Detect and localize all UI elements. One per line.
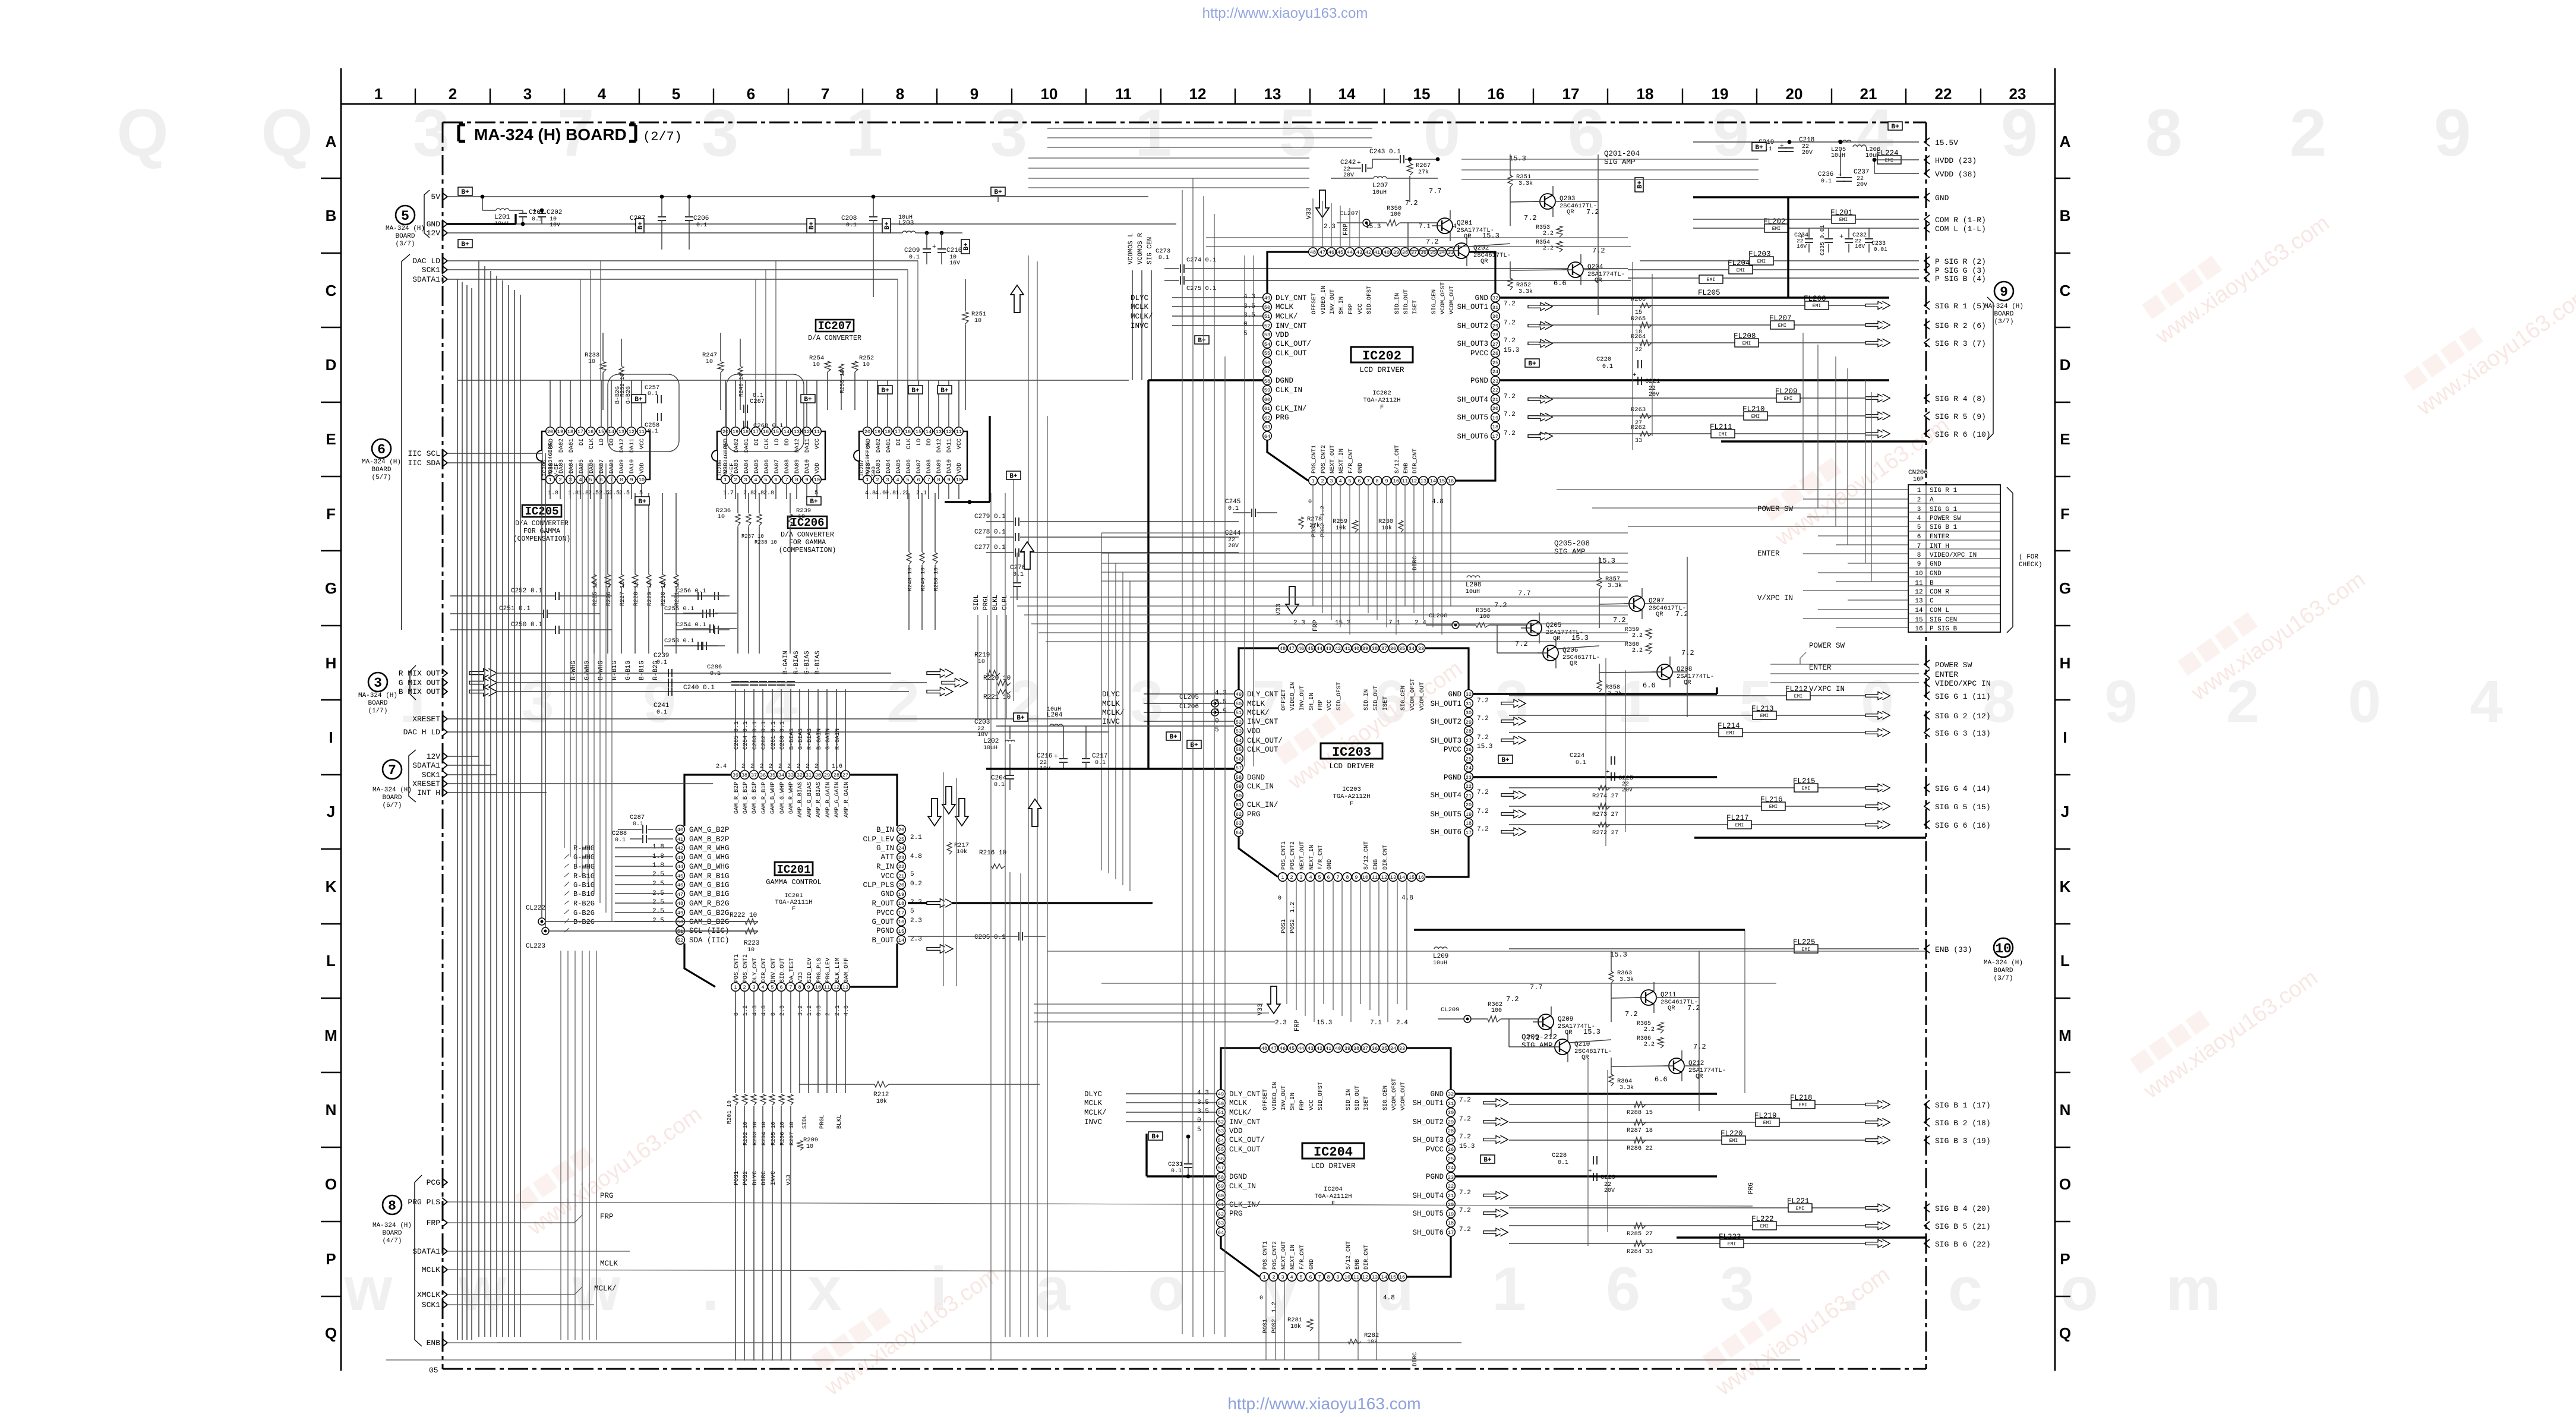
svg-text:DA02: DA02: [558, 438, 565, 453]
svg-text:GAM_G_WHG: GAM_G_WHG: [689, 853, 730, 861]
svg-text:10uH: 10uH: [1466, 589, 1480, 595]
svg-text:ISET: ISET: [1412, 300, 1419, 314]
node POWER SW (right connector): [1924, 660, 1930, 668]
pin 15 of IC207: [914, 427, 923, 436]
svg-text:14: 14: [926, 429, 932, 435]
svg-text:1.8: 1.8: [652, 862, 664, 869]
svg-text:14: 14: [1338, 85, 1356, 103]
connector group 6 circled number: [372, 439, 391, 458]
svg-text:9: 9: [1917, 561, 1921, 568]
VDD rail to IC203: [996, 725, 1234, 727]
svg-text:MA-324 (H): MA-324 (H): [362, 459, 401, 466]
svg-text:DA10: DA10: [946, 459, 953, 474]
svg-text:G-B2G: G-B2G: [573, 909, 595, 917]
svg-text:62: 62: [1236, 812, 1242, 818]
svg-text:FRP: FRP: [1343, 223, 1350, 235]
svg-text:B+: B+: [461, 189, 469, 196]
svg-text:CLP_LEV: CLP_LEV: [863, 835, 894, 844]
svg-text:4.8: 4.8: [761, 1005, 768, 1016]
svg-text:PVCC: PVCC: [1444, 746, 1461, 754]
svg-text:14: 14: [608, 429, 614, 435]
svg-text:FL205: FL205: [1698, 289, 1721, 297]
rounded bus outline under IC205: [608, 374, 679, 452]
svg-text:30: 30: [815, 772, 821, 778]
svg-text:C237: C237: [1854, 169, 1869, 176]
svg-text:R358: R358: [1605, 684, 1620, 691]
svg-text:12V: 12V: [427, 229, 441, 238]
svg-text:IC204: IC204: [1324, 1186, 1343, 1193]
svg-text:FL217: FL217: [1726, 814, 1749, 822]
svg-text:PVCC: PVCC: [1426, 1145, 1444, 1154]
pin 18 of IC206: [741, 427, 750, 436]
svg-text:46: 46: [1298, 646, 1304, 652]
svg-text:2.5: 2.5: [652, 871, 664, 878]
svg-text:EMI: EMI: [1763, 1121, 1772, 1126]
svg-text:10: 10: [974, 318, 981, 324]
svg-text:39: 39: [1393, 250, 1399, 255]
svg-text:2.3: 2.3: [1293, 620, 1305, 627]
IC201 right pin column 26-14: [897, 825, 906, 834]
svg-text:27: 27: [1492, 342, 1498, 348]
svg-text:6: 6: [1309, 1274, 1312, 1280]
svg-text:C218: C218: [1799, 137, 1814, 144]
svg-text:2.2: 2.2: [1632, 633, 1643, 639]
svg-text:C220: C220: [1596, 356, 1611, 363]
svg-text:EMI: EMI: [1784, 396, 1792, 402]
svg-text:MCLK/: MCLK/: [594, 1285, 617, 1293]
svg-text:Q201: Q201: [1457, 220, 1473, 227]
svg-text:GAM_G_B2G: GAM_G_B2G: [689, 909, 730, 917]
svg-text:FRP: FRP: [427, 1219, 441, 1227]
svg-text:DLY_CNT: DLY_CNT: [1247, 690, 1278, 699]
svg-text:DA11: DA11: [946, 438, 953, 453]
connector group: DAC LD / SCK1 / SDATA1: [402, 254, 410, 630]
svg-text:CL207: CL207: [1340, 210, 1359, 217]
svg-text:5: 5: [906, 477, 909, 483]
pin 6 of IC207: [914, 475, 923, 484]
svg-text:VIDEO_IN: VIDEO_IN: [1290, 682, 1296, 711]
svg-text:FL224: FL224: [1876, 149, 1899, 157]
svg-text:C242: C242: [1340, 159, 1356, 166]
svg-text:100: 100: [1390, 212, 1401, 218]
resistor R254 R253 R252 above IC207: [825, 361, 831, 372]
svg-text:QR: QR: [1570, 660, 1577, 667]
svg-text:C: C: [326, 282, 337, 299]
svg-text:C204: C204: [991, 775, 1007, 782]
svg-text:17: 17: [895, 429, 901, 435]
wire bus vertical left group (SDATA/SCK/12V risers): [478, 261, 479, 1337]
pin 10 of IC206: [813, 475, 822, 484]
svg-text:R MIX OUT: R MIX OUT: [399, 669, 440, 678]
svg-text:16: 16: [905, 429, 911, 435]
svg-text:V33: V33: [1257, 1003, 1264, 1015]
IC IC202 top pin row 48-33: [1309, 248, 1318, 257]
svg-text:MA-324 (H): MA-324 (H): [386, 225, 425, 232]
svg-text:DA12: DA12: [619, 438, 626, 453]
svg-text:R254: R254: [809, 355, 824, 362]
svg-text:TGA-A2112H: TGA-A2112H: [1314, 1193, 1352, 1200]
svg-text:u: u: [1376, 1255, 1414, 1324]
svg-text:49: 49: [677, 910, 683, 916]
svg-text:15: 15: [1439, 478, 1445, 484]
svg-text:2: 2: [778, 763, 782, 770]
svg-text:DLYC: DLYC: [1102, 690, 1120, 699]
wire bundle center-right vertical risers: [1182, 190, 1183, 1334]
pin 16 of IC207: [904, 427, 913, 436]
svg-text:5: 5: [589, 477, 592, 483]
svg-text:3.3k: 3.3k: [1608, 582, 1622, 589]
svg-text:B_OUT: B_OUT: [872, 936, 894, 945]
resistor R352 3.3k: [1508, 278, 1513, 290]
svg-text:17: 17: [753, 429, 759, 435]
pin 17 of IC207: [894, 427, 902, 436]
down arrow above IC204: [1267, 986, 1280, 1014]
svg-text:45: 45: [1289, 1046, 1295, 1052]
pin 10 of IC205: [637, 475, 646, 484]
svg-text:GND: GND: [1309, 1259, 1315, 1270]
svg-text:QR: QR: [1668, 1005, 1675, 1012]
svg-text:10V: 10V: [550, 222, 560, 229]
svg-text:DAC LD: DAC LD: [412, 257, 440, 266]
svg-text:NEXT_OUT: NEXT_OUT: [1281, 1241, 1287, 1270]
svg-text:(3/7): (3/7): [395, 241, 415, 248]
node SIG G 4 (14) (right connector): [1924, 784, 1930, 792]
svg-text:B+: B+: [1198, 337, 1206, 345]
svg-text:3: 3: [1130, 668, 1163, 735]
svg-text:CL222: CL222: [526, 905, 545, 912]
svg-text:MCLK: MCLK: [1102, 700, 1120, 708]
svg-text:SH_OUT1: SH_OUT1: [1430, 700, 1461, 708]
svg-text:15: 15: [598, 429, 604, 435]
svg-text:DD: DD: [609, 438, 615, 446]
svg-text:MCLK: MCLK: [422, 1265, 440, 1274]
svg-text:MCLK/: MCLK/: [1102, 709, 1125, 717]
svg-text:48: 48: [1261, 1046, 1267, 1052]
svg-text:10: 10: [718, 514, 725, 520]
svg-text:5: 5: [910, 871, 914, 878]
svg-text:42: 42: [1335, 646, 1341, 652]
svg-text:VDD: VDD: [639, 463, 646, 474]
svg-text:7.7: 7.7: [1429, 187, 1442, 195]
transistor Q209: [1538, 1014, 1554, 1030]
svg-text:10: 10: [956, 477, 962, 483]
svg-text:L: L: [326, 952, 336, 970]
svg-text:FL201: FL201: [1830, 209, 1853, 217]
svg-text:32: 32: [797, 772, 803, 778]
svg-text:C205 0.1: C205 0.1: [974, 934, 1006, 941]
svg-text:63: 63: [1264, 424, 1270, 430]
node SIG R 5 (9) (right connector): [1924, 412, 1930, 420]
svg-text:GAM_R_WHG: GAM_R_WHG: [689, 844, 730, 853]
pin 12 of IC206: [803, 427, 812, 436]
svg-text:0: 0: [1197, 1117, 1201, 1124]
IC IC206 D/A converter package: [717, 431, 825, 479]
svg-text:FL209: FL209: [1775, 387, 1798, 396]
svg-text:4.3: 4.3: [1197, 1090, 1209, 1097]
svg-text:TGA-A2112H: TGA-A2112H: [1363, 397, 1400, 404]
svg-text:SIG R 6 (10): SIG R 6 (10): [1935, 430, 1991, 439]
svg-text:9: 9: [2000, 285, 2008, 300]
svg-text:2.2: 2.2: [1543, 231, 1554, 237]
svg-text:ENB: ENB: [427, 1339, 441, 1347]
pin 8 of IC206: [792, 475, 801, 484]
svg-text:AMP_B_GAIN: AMP_B_GAIN: [825, 782, 832, 818]
svg-text:SH_OUT3: SH_OUT3: [1457, 340, 1488, 348]
IC IC203 GND thick wire: [1473, 693, 1717, 695]
svg-text:60: 60: [1264, 397, 1270, 403]
arrow IC202 SH_OUT1: [1528, 302, 1552, 311]
svg-text:12: 12: [804, 429, 810, 435]
svg-text:B+: B+: [809, 222, 816, 230]
svg-text:44: 44: [1347, 250, 1353, 255]
svg-text:B-B2G: B-B2G: [573, 918, 595, 926]
svg-text:w: w: [458, 1255, 507, 1324]
svg-text:POS_CNT1: POS_CNT1: [1262, 1241, 1269, 1270]
svg-text:2.5: 2.5: [652, 899, 664, 906]
svg-text:K: K: [326, 878, 337, 895]
svg-text:56: 56: [1218, 1156, 1224, 1162]
svg-text:L209: L209: [1433, 953, 1448, 960]
svg-text:V/XPC IN: V/XPC IN: [1809, 685, 1845, 693]
svg-text:PRG PLS: PRG PLS: [408, 1198, 440, 1207]
svg-text:22: 22: [1935, 85, 1952, 103]
wire SIG B 1 (17): [1509, 1104, 1791, 1105]
svg-text:OFFSET: OFFSET: [1262, 1089, 1269, 1110]
svg-text:10: 10: [1915, 570, 1922, 577]
svg-text:+: +: [1780, 143, 1784, 150]
resistor R357 3.3k: [1597, 577, 1602, 589]
svg-text:20V: 20V: [1604, 1188, 1615, 1194]
svg-text:2: 2: [886, 668, 920, 735]
svg-text:DA01: DA01: [744, 438, 750, 453]
svg-text:1: 1: [1311, 478, 1314, 484]
svg-text:B+: B+: [638, 498, 646, 506]
svg-text:14: 14: [784, 429, 790, 435]
svg-text:36: 36: [1372, 1046, 1378, 1052]
svg-text:INVC: INVC: [1084, 1118, 1102, 1126]
svg-text:0.01: 0.01: [1874, 246, 1887, 253]
transistor Q211: [1641, 990, 1656, 1005]
wire vertical at dense col 10: [1244, 255, 1245, 766]
svg-text:DI: DI: [579, 438, 585, 446]
svg-text:38: 38: [1353, 1046, 1359, 1052]
svg-text:POS2: POS2: [1320, 523, 1327, 537]
svg-text:7.1: 7.1: [1370, 1020, 1382, 1027]
svg-text:V33: V33: [1306, 207, 1313, 219]
svg-text:INVC: INVC: [1131, 322, 1148, 330]
svg-text:B+: B+: [1169, 734, 1177, 741]
pin 6 of IC205: [596, 475, 605, 484]
svg-text:EMI: EMI: [1778, 323, 1786, 329]
svg-text:7.2: 7.2: [1405, 199, 1418, 207]
svg-text:47: 47: [1271, 1046, 1277, 1052]
svg-text:7.2: 7.2: [1459, 1189, 1471, 1197]
wire SIG G 4 (14): [1509, 787, 1794, 788]
svg-text:SID_IN: SID_IN: [1363, 689, 1370, 711]
svg-text:O: O: [2059, 1175, 2071, 1193]
svg-text:c: c: [1948, 1255, 1982, 1324]
svg-text:EMI: EMI: [1751, 414, 1760, 419]
IC IC202 left pin column 49-64: [1263, 294, 1272, 302]
svg-text:VCOMOS R: VCOMOS R: [1137, 233, 1144, 264]
svg-text:GAM_OFF: GAM_OFF: [844, 958, 850, 983]
svg-text:38: 38: [1372, 646, 1378, 652]
pin 19 of IC206: [731, 427, 740, 436]
svg-text:58: 58: [1264, 378, 1270, 384]
svg-text:C250 0.1: C250 0.1: [511, 621, 542, 629]
svg-text:MCLK/: MCLK/: [1131, 313, 1153, 321]
svg-text:R284 33: R284 33: [1627, 1248, 1653, 1255]
svg-text:2.1: 2.1: [916, 490, 927, 497]
svg-text:18: 18: [1466, 820, 1472, 826]
connector group 5 bracket: [424, 190, 430, 238]
svg-text:1: 1: [1492, 1255, 1526, 1324]
svg-text:17: 17: [1492, 434, 1498, 440]
svg-text:SDA (IIC): SDA (IIC): [689, 936, 730, 945]
svg-text:52: 52: [1264, 323, 1270, 329]
svg-text:B+: B+: [1483, 1157, 1492, 1164]
svg-text:2.8: 2.8: [763, 490, 774, 497]
svg-text:58: 58: [1218, 1175, 1224, 1181]
svg-text:17: 17: [1466, 830, 1472, 836]
svg-text:+: +: [532, 208, 536, 215]
pin 1 of IC207: [863, 475, 872, 484]
svg-text:C202: C202: [547, 209, 562, 216]
B+ near IC202 VDD: [1195, 336, 1209, 344]
svg-text:SIDL: SIDL: [802, 1115, 809, 1129]
svg-text:20V: 20V: [1649, 392, 1659, 398]
svg-text:PRG_PLS: PRG_PLS: [816, 958, 823, 983]
down arrow above IC203: [1286, 586, 1299, 614]
svg-text:H: H: [326, 654, 337, 672]
svg-text:R251: R251: [971, 311, 986, 318]
svg-text:50: 50: [1218, 1101, 1224, 1107]
svg-text:SH_IN: SH_IN: [1309, 693, 1315, 711]
svg-text:QR: QR: [1565, 1029, 1573, 1036]
svg-text:R206 10: R206 10: [779, 1122, 785, 1145]
svg-text:R250 10: R250 10: [933, 567, 939, 591]
svg-text:2: 2: [760, 763, 763, 770]
svg-text:C217: C217: [1092, 753, 1107, 760]
svg-text:0: 0: [1308, 499, 1312, 506]
svg-text:45: 45: [677, 873, 683, 879]
label box IC206: [788, 516, 827, 528]
svg-text:DA05: DA05: [896, 459, 902, 474]
svg-text:LCD DRIVER: LCD DRIVER: [1329, 762, 1374, 771]
sig amp wires: [1426, 624, 1452, 626]
svg-text:EMI: EMI: [1772, 226, 1781, 232]
svg-text:2SC4617TL-: 2SC4617TL-: [1574, 1048, 1612, 1055]
svg-text:VCOM_OUT: VCOM_OUT: [1449, 286, 1456, 314]
svg-text:19: 19: [733, 429, 738, 435]
svg-text:a: a: [1036, 1255, 1071, 1324]
svg-text:61: 61: [1264, 406, 1270, 412]
svg-text:C241: C241: [654, 702, 670, 709]
svg-text:13: 13: [1420, 478, 1426, 484]
svg-text:SH_OUT2: SH_OUT2: [1412, 1118, 1444, 1126]
svg-text:54: 54: [1236, 738, 1242, 744]
svg-text:VIDEO_IN: VIDEO_IN: [1272, 1082, 1278, 1110]
svg-text:C284 0.1: C284 0.1: [743, 721, 749, 750]
svg-text:3: 3: [1720, 1255, 1754, 1324]
svg-text:POS_CNT2: POS_CNT2: [1290, 841, 1296, 870]
svg-text:SID_LEV: SID_LEV: [807, 958, 813, 983]
svg-text:G-B1G: G-B1G: [625, 661, 632, 680]
svg-text:P SIG B (4): P SIG B (4): [1935, 274, 1986, 283]
svg-text:ENTER: ENTER: [1935, 670, 1958, 679]
svg-text:DIR_CNT: DIR_CNT: [1382, 845, 1389, 870]
resistor cluster R246 R247 above IC206: [718, 362, 724, 373]
svg-text:8: 8: [1327, 1274, 1330, 1280]
svg-text:NEXT_OUT: NEXT_OUT: [1299, 841, 1306, 870]
svg-text:POS1: POS1: [734, 1171, 740, 1185]
svg-text:EMI: EMI: [1735, 823, 1744, 828]
svg-text:C244: C244: [1225, 530, 1241, 537]
svg-text:D/A CONVERTER: D/A CONVERTER: [781, 531, 834, 539]
svg-text:4: 4: [754, 477, 757, 483]
svg-text:2: 2: [1321, 478, 1324, 484]
svg-text:2: 2: [2290, 96, 2326, 170]
svg-text:42: 42: [1317, 1046, 1322, 1052]
svg-text:BOARD: BOARD: [371, 466, 391, 474]
svg-text:DA10: DA10: [804, 459, 811, 474]
svg-text:INT H: INT H: [417, 788, 440, 797]
svg-text:5: 5: [764, 477, 767, 483]
svg-text:22: 22: [898, 864, 904, 870]
svg-text:VIDEO_IN: VIDEO_IN: [1321, 286, 1327, 314]
arrow IC203 SH_OUT1: [1501, 699, 1526, 708]
inductor L208: [1467, 576, 1480, 577]
svg-text:2: 2: [797, 763, 800, 770]
svg-text:DGND: DGND: [1229, 1173, 1247, 1181]
svg-text:3: 3: [523, 85, 532, 103]
IC IC203 right pin column 32-17: [1464, 690, 1473, 699]
svg-text:48: 48: [1280, 646, 1286, 652]
svg-text:DA09: DA09: [619, 459, 626, 474]
svg-text:PRG: PRG: [1247, 810, 1261, 819]
connector group 5 circled number: [396, 206, 415, 225]
capacitor C207: [658, 216, 666, 217]
svg-text:1.8: 1.8: [652, 844, 664, 851]
svg-text:0.1: 0.1: [909, 254, 920, 261]
svg-text:INV_CNT: INV_CNT: [771, 958, 777, 983]
svg-text:4.3: 4.3: [752, 1005, 759, 1016]
svg-text:BOARD: BOARD: [395, 233, 415, 240]
svg-text:DA04: DA04: [569, 459, 575, 474]
svg-text:18: 18: [743, 429, 749, 435]
transistor Q202: [1454, 243, 1469, 258]
svg-text:C228: C228: [1552, 1152, 1567, 1159]
svg-text:16: 16: [898, 919, 904, 925]
svg-text:CLK_IN: CLK_IN: [1247, 782, 1274, 791]
svg-text:2.3: 2.3: [910, 917, 922, 924]
svg-text:4: 4: [579, 477, 582, 483]
svg-text:6: 6: [1568, 96, 1605, 170]
inductor L203: [902, 231, 916, 233]
svg-text:FRP: FRP: [1294, 1020, 1301, 1031]
svg-text:C210: C210: [946, 247, 962, 254]
svg-text:4: 4: [761, 984, 764, 990]
pin 11 of IC205: [637, 427, 646, 436]
svg-text:15.3: 15.3: [1598, 557, 1615, 565]
svg-text:B+: B+: [1755, 144, 1763, 152]
svg-text:C277 0.1: C277 0.1: [974, 544, 1006, 551]
svg-text:AMP_B_BIAS: AMP_B_BIAS: [797, 782, 804, 818]
svg-text:VCC: VCC: [880, 872, 894, 881]
svg-text:VCC: VCC: [1309, 1100, 1315, 1110]
svg-text:MCLK: MCLK: [1084, 1099, 1103, 1107]
vertical feed lines right of IC202: [1632, 262, 1633, 450]
